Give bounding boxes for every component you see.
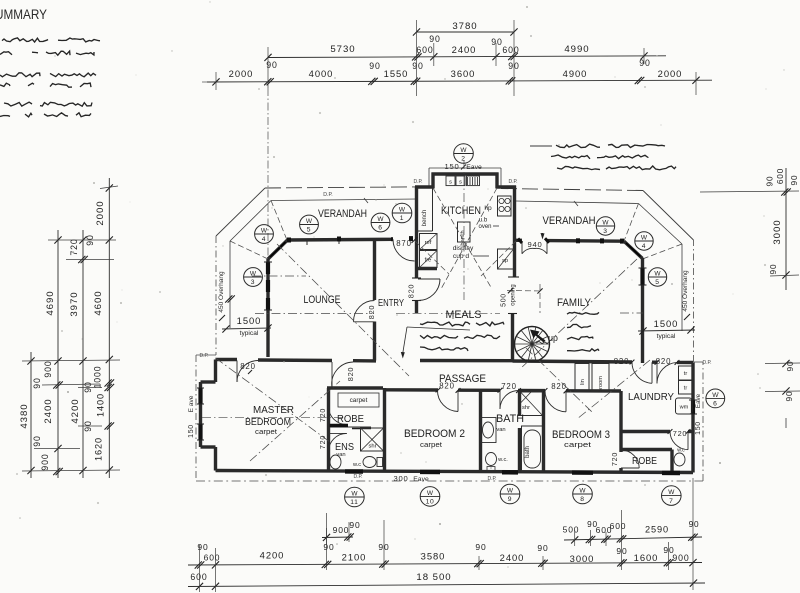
svg-text:4990: 4990 xyxy=(564,44,589,55)
svg-text:820: 820 xyxy=(346,367,355,382)
left column stub y470 xyxy=(22,470,120,471)
handwritten note bulkhead line2 xyxy=(420,335,500,338)
svg-text:tr: tr xyxy=(684,371,688,377)
svg-text:90: 90 xyxy=(785,391,794,402)
svg-text:90: 90 xyxy=(83,381,93,392)
svg-text:7: 7 xyxy=(669,498,673,505)
kitchen roof hip dash X right xyxy=(441,188,497,289)
svg-text:shr: shr xyxy=(368,444,376,450)
gutter line right side vertical xyxy=(681,244,683,331)
door bed2 820 xyxy=(437,390,458,412)
wall robe3 door jamb xyxy=(619,468,622,472)
gutter line left side vertical xyxy=(225,241,235,328)
gutter line left verandah xyxy=(271,198,417,203)
wall lounge south / master north (west part) xyxy=(216,358,238,361)
svg-text:2000: 2000 xyxy=(95,200,106,225)
laundry trough tr upper xyxy=(679,366,693,380)
wall kitchen east riser xyxy=(495,173,498,189)
right column stub y363 xyxy=(765,362,800,365)
roof hip dash top-right upper xyxy=(624,204,639,242)
ens vanity oval xyxy=(330,452,346,469)
window W/3 in lounge west wall xyxy=(264,262,272,310)
bottom overall dim line xyxy=(188,572,705,590)
roof diagonal master up xyxy=(250,381,340,461)
wall robe3 north xyxy=(621,448,672,451)
handwritten note stair line2 xyxy=(567,324,591,327)
bath wc xyxy=(486,453,509,471)
eave outline top-left chamfer xyxy=(216,188,265,236)
wall entry west upper xyxy=(373,240,376,301)
svg-text:2400: 2400 xyxy=(452,44,477,55)
svg-text:w.c: w.c xyxy=(352,462,361,468)
svg-text:KITCHEN: KITCHEN xyxy=(441,205,481,217)
svg-text:3600: 3600 xyxy=(451,68,476,79)
label ub oven xyxy=(478,218,499,231)
label 820 laundry west door xyxy=(614,357,635,366)
wall master west upper xyxy=(214,360,217,383)
svg-text:typical: typical xyxy=(657,333,676,340)
label 820 bed3 door xyxy=(543,382,569,394)
wall family east xyxy=(641,258,644,363)
handwritten note fanlight line1 xyxy=(530,144,665,148)
svg-text:oven: oven xyxy=(478,224,491,230)
svg-text:UMMARY: UMMARY xyxy=(0,7,47,22)
wall passage north laundry segment xyxy=(652,361,657,364)
wall bed3 west xyxy=(542,391,545,472)
svg-text:1: 1 xyxy=(400,215,404,222)
wall lounge chamfer (window W/4) xyxy=(268,240,288,259)
label 720 wc door xyxy=(668,429,691,438)
svg-text:W: W xyxy=(306,218,313,225)
window W/5 W/6 glazing marks xyxy=(287,239,413,245)
door robe3 720 xyxy=(621,450,639,468)
wall bed3 east / laundry west xyxy=(619,391,622,452)
svg-text:W: W xyxy=(261,227,268,234)
dimension row C line xyxy=(202,80,712,82)
svg-text:2: 2 xyxy=(461,156,465,163)
left column stub y385 xyxy=(42,384,100,385)
wall kitchen NW shoulder xyxy=(415,185,433,188)
svg-text:D.P.: D.P. xyxy=(508,179,517,185)
wall family chamfer (window W/4) xyxy=(624,241,643,258)
door meals-entry 820 xyxy=(418,279,440,301)
wall meals south / passage north xyxy=(420,359,513,363)
label 820 laundry east door xyxy=(655,357,680,366)
dimension row B line xyxy=(268,56,666,58)
label MASTER BEDROOM xyxy=(245,404,294,436)
bottom main dim line xyxy=(188,563,702,566)
bath vanity xyxy=(481,418,506,443)
door bed3 820 xyxy=(545,391,566,412)
eave left vertical upper wing xyxy=(215,236,217,355)
svg-text:600: 600 xyxy=(190,572,207,582)
wall verandah front left xyxy=(287,238,393,242)
wall stair west (below 500 opening) xyxy=(508,314,517,362)
svg-text:900: 900 xyxy=(43,360,53,377)
svg-text:BEDROOM 2: BEDROOM 2 xyxy=(404,428,465,440)
bottom mini dim right line xyxy=(564,537,702,540)
dimension 1500 typical left xyxy=(222,315,272,337)
svg-text:150: 150 xyxy=(695,421,702,435)
label BEDROOM 2 xyxy=(404,428,465,449)
svg-text:720: 720 xyxy=(611,452,619,466)
bottom extension x349 xyxy=(348,522,350,542)
eave jog right DP corner xyxy=(694,361,704,363)
wall fridge nook bottom xyxy=(417,267,438,270)
svg-text:90: 90 xyxy=(197,542,208,552)
svg-text:PASSAGE: PASSAGE xyxy=(439,373,486,385)
ens shower xyxy=(361,428,384,451)
svg-text:3: 3 xyxy=(251,279,255,286)
svg-text:90: 90 xyxy=(32,377,42,388)
roof valley dash from front door xyxy=(415,241,449,274)
wall bed2 east / bath west xyxy=(479,390,482,472)
bottom extension x543 xyxy=(542,556,544,570)
door robe master 720 xyxy=(329,407,347,425)
label display cupd xyxy=(453,245,489,260)
svg-text:90: 90 xyxy=(786,361,795,372)
arrow fanlight above family doors xyxy=(541,233,545,240)
svg-text:wm: wm xyxy=(679,405,689,411)
eave left vertical lower wing xyxy=(195,355,197,481)
svg-text:90: 90 xyxy=(790,175,799,186)
kitchen hotplate hp xyxy=(498,196,512,216)
svg-text:90: 90 xyxy=(766,176,775,187)
extension line x268 xyxy=(267,47,269,88)
bottom mini dim 900 xyxy=(322,520,361,545)
svg-text:90: 90 xyxy=(769,264,778,275)
wall family south / passage north xyxy=(513,361,633,362)
svg-text:90: 90 xyxy=(491,37,502,47)
door wc 720 xyxy=(670,432,688,450)
robe sliding doors xyxy=(330,426,372,429)
kitchen drainer hatched xyxy=(467,176,480,186)
svg-text:D.P.: D.P. xyxy=(702,360,711,366)
eave right vertical upper wing xyxy=(693,240,695,362)
svg-text:500: 500 xyxy=(563,525,580,535)
svg-text:820: 820 xyxy=(407,284,416,299)
handwritten summary line 3 xyxy=(0,73,96,77)
svg-text:W: W xyxy=(579,487,586,494)
svg-text:W: W xyxy=(654,270,661,277)
handwritten summary line 6 xyxy=(0,113,91,117)
wall bay west (windows) xyxy=(197,382,204,447)
svg-text:BEDROOM: BEDROOM xyxy=(245,416,291,428)
svg-text:4690: 4690 xyxy=(45,290,56,315)
bottom mini dim 500 xyxy=(563,520,598,544)
bottom dim 90 c xyxy=(474,542,486,567)
svg-text:940: 940 xyxy=(528,240,543,249)
window circle W/4 left xyxy=(255,225,274,244)
window circle W/4 right xyxy=(635,232,653,250)
svg-text:1600: 1600 xyxy=(634,552,659,563)
window W/10 marks bottom wall xyxy=(420,470,440,475)
svg-text:900: 900 xyxy=(40,453,50,470)
svg-text:carpet: carpet xyxy=(350,397,368,404)
bottom extension x693 xyxy=(692,478,694,590)
bottom extension x621.5 xyxy=(621,510,623,570)
handwritten note fanlight line3 xyxy=(557,166,676,170)
bulkhead leader arrow xyxy=(401,327,470,359)
dimension 90 (stair wall) xyxy=(506,61,520,85)
right column stub y192 xyxy=(700,191,799,192)
label 720 bath door xyxy=(498,382,521,393)
window circle W/3 left xyxy=(244,268,263,287)
svg-text:BATH: BATH xyxy=(496,413,524,425)
svg-text:ROBE: ROBE xyxy=(632,455,657,467)
svg-text:opening: opening xyxy=(511,284,517,305)
door entry-lounge 820 xyxy=(353,300,375,322)
window circle W/7 xyxy=(662,486,682,506)
svg-text:600: 600 xyxy=(204,553,221,563)
svg-text:MASTER: MASTER xyxy=(253,404,294,416)
svg-text:90: 90 xyxy=(689,520,700,529)
svg-text:820: 820 xyxy=(240,362,255,371)
label 820 bed2 door xyxy=(436,382,461,393)
svg-text:cup d: cup d xyxy=(453,253,469,260)
svg-text:carpet: carpet xyxy=(420,440,443,449)
dimension 2000 left xyxy=(212,68,253,86)
left column stub y188 xyxy=(100,186,118,189)
svg-text:Eave: Eave xyxy=(413,476,429,483)
svg-text:LOUNGE: LOUNGE xyxy=(304,294,341,306)
svg-text:ENS: ENS xyxy=(335,442,354,453)
extension line kitchen east xyxy=(513,20,515,96)
door front entry 870 xyxy=(393,239,415,261)
dimension 2400 (kitchen alcove) xyxy=(452,44,500,60)
dimension 2000 right xyxy=(658,68,700,84)
wall bay south xyxy=(201,445,216,448)
dimension 5730 xyxy=(264,44,355,61)
svg-text:900: 900 xyxy=(333,525,350,535)
svg-text:4: 4 xyxy=(642,243,646,250)
window circle W/5 right xyxy=(648,268,666,286)
svg-text:720: 720 xyxy=(673,429,688,438)
svg-text:450 Overhang: 450 Overhang xyxy=(218,271,225,313)
left column stub y426 xyxy=(78,425,102,427)
svg-text:bench: bench xyxy=(422,210,428,226)
handwritten summary line 5 xyxy=(4,102,92,106)
ens wc xyxy=(352,457,383,469)
bottom extension x668.5 xyxy=(668,542,670,570)
svg-text:2000: 2000 xyxy=(658,68,683,79)
door family french doors 940 xyxy=(518,238,549,254)
left column stub y448 xyxy=(34,448,80,450)
eave kitchen right riser xyxy=(500,168,502,188)
axis dash horizontal y417 master xyxy=(202,416,345,418)
handwritten note bulkhead line1 xyxy=(420,322,504,326)
window circle W/1 xyxy=(392,203,412,223)
svg-text:1500: 1500 xyxy=(237,315,262,326)
bottom dim 90+600 xyxy=(195,542,221,569)
bottom extension x215.5 xyxy=(215,548,217,592)
dimension 90 (kitchen west wall) xyxy=(412,34,441,61)
roof diagonal bed3 xyxy=(526,348,592,412)
svg-text:ref: ref xyxy=(425,240,432,246)
window W/5 in family east wall xyxy=(639,268,647,285)
svg-text:tr: tr xyxy=(684,386,688,392)
svg-text:4380: 4380 xyxy=(19,403,30,428)
handwritten note stair line3 xyxy=(567,337,593,340)
svg-text:6: 6 xyxy=(713,401,717,408)
dimension 4000 (lounge) xyxy=(309,68,334,79)
bottom extension x574.7 xyxy=(574,530,576,546)
extension line kitchen west xyxy=(416,20,418,96)
svg-text:ROBE: ROBE xyxy=(337,413,364,425)
svg-text:W: W xyxy=(668,489,675,496)
wall lounge south (mid part) xyxy=(258,358,332,362)
svg-text:90: 90 xyxy=(323,542,334,552)
bottom extension x606 xyxy=(605,532,607,546)
svg-text:450 Overhang: 450 Overhang xyxy=(682,270,689,312)
dimension 90 (lounge west wall) xyxy=(264,60,278,85)
svg-text:150: 150 xyxy=(188,424,195,438)
svg-text:11: 11 xyxy=(350,499,358,506)
svg-text:900: 900 xyxy=(672,553,689,563)
eave tick 150 top xyxy=(461,165,466,170)
label 820 master door xyxy=(240,362,255,374)
handwritten note stair line4 xyxy=(567,349,599,351)
door passage west 820 xyxy=(332,362,353,388)
wall verandah front right stub xyxy=(516,239,522,242)
left column stub y388 xyxy=(78,387,102,389)
bottom extension x479 xyxy=(478,556,480,570)
svg-text:van: van xyxy=(496,427,505,433)
wall bottom xyxy=(216,471,694,473)
svg-text:W: W xyxy=(602,219,609,226)
overhang tick right xyxy=(684,314,690,320)
svg-text:720: 720 xyxy=(319,408,327,422)
svg-text:4600: 4600 xyxy=(93,290,104,315)
wall master east / robe west xyxy=(327,388,330,471)
svg-text:1550: 1550 xyxy=(384,68,409,79)
wall verandah front right xyxy=(547,239,624,243)
svg-text:2400: 2400 xyxy=(43,398,54,423)
linen closet xyxy=(575,364,589,392)
dimension 4990 xyxy=(564,44,647,60)
gutter line top-right chamfer xyxy=(639,204,683,245)
svg-text:90: 90 xyxy=(616,546,627,556)
wall passage south robe top xyxy=(327,386,383,389)
bottom dim 90 f + 900 xyxy=(663,545,696,566)
window circle W/11 xyxy=(345,487,365,507)
bath tub xyxy=(522,426,544,472)
svg-text:5: 5 xyxy=(307,227,311,234)
roof diagonal through family xyxy=(520,259,637,369)
svg-text:D.P.: D.P. xyxy=(353,474,362,480)
svg-text:3970: 3970 xyxy=(69,291,80,316)
extension line x696 top xyxy=(695,72,697,95)
window W/9 marks bottom wall xyxy=(502,470,518,475)
wall kitchen top xyxy=(432,172,499,175)
svg-text:LAUNDRY: LAUNDRY xyxy=(628,391,674,403)
wall kitchen east upper xyxy=(508,186,519,278)
bottom extension x590.5 xyxy=(590,530,592,546)
svg-text:w.c: w.c xyxy=(677,448,685,454)
svg-text:2400: 2400 xyxy=(500,552,525,563)
svg-text:sp: sp xyxy=(502,258,508,264)
handwritten summary line 1 xyxy=(2,38,100,42)
window circle W/2 xyxy=(454,144,474,164)
svg-text:6: 6 xyxy=(378,225,382,232)
window circle W/8 xyxy=(573,484,593,504)
svg-text:u.b: u.b xyxy=(479,218,488,224)
right dim line xyxy=(766,168,800,428)
svg-text:720: 720 xyxy=(501,382,516,391)
eave line above kitchen xyxy=(429,167,501,169)
wall robe-ens east / bed2 west xyxy=(383,388,386,471)
svg-text:D.P.: D.P. xyxy=(199,353,208,359)
bath shower xyxy=(521,392,543,416)
roof diagonal through entry xyxy=(277,244,409,376)
left column stub y240 xyxy=(48,239,116,241)
bottom extension x326.5 xyxy=(326,513,328,570)
kitchen pantry sp xyxy=(498,249,514,269)
kitchen axis dash vertical xyxy=(463,160,465,300)
window marks right verandah wall xyxy=(576,238,624,243)
axis dash horizontal y313 xyxy=(255,312,643,315)
bottom dim 90 d xyxy=(537,543,548,567)
wall kitchen west riser xyxy=(431,173,434,189)
wall entry west lower xyxy=(373,322,376,361)
svg-text:carpet: carpet xyxy=(255,429,277,436)
svg-text:150: 150 xyxy=(445,162,460,171)
wall laundry south xyxy=(621,430,693,433)
svg-text:870: 870 xyxy=(396,239,411,248)
svg-text:2100: 2100 xyxy=(342,552,367,563)
door laundry west 820 xyxy=(632,362,652,383)
roof diagonal master wing xyxy=(216,358,331,442)
broom closet xyxy=(592,364,609,392)
roof valley dash from family door corner xyxy=(481,241,516,276)
label 870 front door xyxy=(396,237,417,248)
bottom mini dim 600 b xyxy=(610,521,627,543)
svg-text:1500: 1500 xyxy=(654,318,679,329)
svg-text:s: s xyxy=(459,180,462,186)
svg-text:1000: 1000 xyxy=(93,366,103,389)
svg-text:4000: 4000 xyxy=(309,68,334,79)
svg-text:600: 600 xyxy=(610,521,627,531)
extension line x644 xyxy=(643,48,645,64)
dimension 3780 (kitchen width) xyxy=(413,21,518,36)
roof hip dash top-left lower xyxy=(230,241,268,259)
bottom mini dim 2590 xyxy=(645,520,699,541)
svg-text:display: display xyxy=(453,245,474,252)
svg-text:5730: 5730 xyxy=(330,44,355,55)
front door opening posts xyxy=(391,237,393,241)
wall robe3 / wc divider xyxy=(670,450,673,473)
svg-text:fre: fre xyxy=(425,258,432,264)
window circle W/6 right xyxy=(706,389,725,408)
kitchen bench left xyxy=(417,188,433,231)
label 500 opening xyxy=(501,284,517,307)
wall bath east xyxy=(518,391,521,472)
wall kitchen west lower stub xyxy=(412,301,421,314)
laundry trough tr lower xyxy=(679,381,693,395)
svg-text:W: W xyxy=(250,270,257,277)
handwritten summary line 4 xyxy=(0,83,91,87)
window circle W/9 xyxy=(500,484,520,504)
svg-text:broom: broom xyxy=(598,376,604,392)
svg-text:Eave: Eave xyxy=(695,393,702,408)
kitchen sink unit s+s xyxy=(446,176,465,186)
svg-text:w.c.: w.c. xyxy=(497,457,508,463)
roof hip dash top-left upper xyxy=(271,201,287,241)
svg-text:18 500: 18 500 xyxy=(416,572,451,583)
bottom dim 90 b xyxy=(378,542,389,568)
dimension 3600 (kitchen) xyxy=(451,68,476,79)
svg-text:carpet: carpet xyxy=(564,440,592,449)
